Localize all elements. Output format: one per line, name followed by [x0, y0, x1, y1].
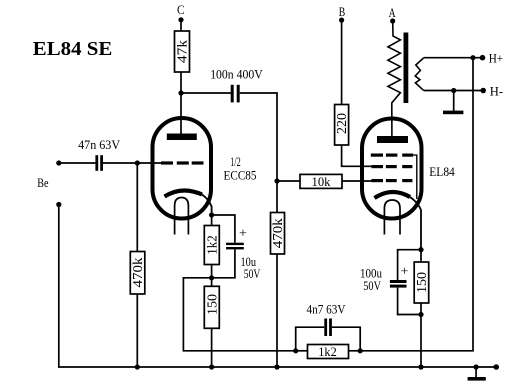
svg-text:47n 63V: 47n 63V	[78, 137, 121, 152]
capacitor C 100u 50V polarized	[360, 265, 409, 293]
wire B to R 220	[341, 20, 343, 104]
wire 100n to corner down to node	[240, 93, 277, 212]
svg-text:B: B	[339, 5, 346, 19]
wire 220 to EL84 grid g2	[342, 145, 372, 166]
svg-text:4n7 63V: 4n7 63V	[307, 302, 347, 317]
wire input ground down and ground rail	[59, 205, 496, 368]
resistor 10k	[300, 174, 342, 189]
grid g3 dashes EL84	[371, 155, 417, 199]
wire junction to 150	[420, 250, 422, 315]
wire 10u bottom to junction	[212, 249, 235, 277]
svg-text:150: 150	[204, 294, 219, 315]
node 100u/150 top junction	[418, 247, 423, 252]
svg-text:1k2: 1k2	[204, 235, 219, 255]
terminal rail end	[493, 364, 499, 370]
svg-text:150: 150	[414, 272, 429, 293]
wire feedback from junction down-left	[183, 278, 295, 351]
wire junction to R 10k	[277, 180, 300, 182]
grid dashes ECC85	[161, 161, 204, 164]
capacitor C 4n7	[324, 319, 332, 337]
svg-text:H-: H-	[490, 84, 503, 99]
node C	[177, 3, 185, 22]
wire 47k to anode junction	[180, 72, 182, 93]
node bottom network right	[358, 348, 363, 353]
node rail dot EL84 cathode	[418, 364, 423, 369]
wire secondary bottom to H-	[424, 90, 484, 92]
wire cathode junction to 1k2	[211, 215, 213, 226]
wire secondary top to H+	[424, 57, 483, 59]
wire cathode junction to C 10u	[212, 215, 235, 243]
node Be input signal	[56, 160, 61, 165]
svg-text:10k: 10k	[312, 174, 331, 189]
wire C to R 47k	[180, 20, 182, 31]
node 1k2/150 junction	[209, 265, 214, 287]
svg-text:C: C	[177, 3, 185, 17]
svg-text:100n 400V: 100n 400V	[210, 66, 263, 81]
node rail dot 150	[209, 364, 214, 369]
heater ECC85	[175, 198, 189, 235]
heater EL84	[384, 200, 400, 235]
svg-text:Be: Be	[37, 175, 48, 190]
terminal H-	[480, 84, 503, 99]
wire top junction to 100u	[398, 250, 421, 280]
label Be	[37, 175, 48, 190]
tube U1 envelope 1/2 ECC85	[153, 118, 212, 219]
transformer core	[404, 33, 409, 104]
wire grid junction to R 470k left	[136, 163, 138, 252]
node junction 10k/470k	[274, 178, 279, 183]
wire 10k to EL84 grid g1	[342, 180, 372, 182]
svg-text:50V: 50V	[244, 266, 261, 281]
resistor 47k	[175, 31, 190, 72]
terminal H+	[480, 50, 503, 65]
anode bar EL84	[377, 136, 408, 143]
label 1/2 ECC85	[224, 154, 257, 182]
tube U2 envelope EL84	[362, 119, 422, 219]
svg-text:220: 220	[334, 113, 349, 134]
resistor 470k middle	[270, 213, 285, 255]
wire 470k left to rail	[136, 294, 138, 367]
wire 470k middle to rail	[276, 254, 278, 367]
node grid junction	[135, 160, 140, 165]
svg-text:EL84: EL84	[429, 164, 455, 179]
label 4n7 63V	[307, 302, 347, 317]
capacitor C 100n 400V	[210, 66, 263, 102]
wire input to C 47n	[59, 162, 96, 164]
capacitor C 47n 63V	[78, 137, 121, 171]
svg-text:EL84 SE: EL84 SE	[33, 38, 113, 60]
svg-text:H+: H+	[489, 50, 503, 65]
node rail dot 470k middle	[274, 364, 279, 369]
anode bar ECC85	[167, 93, 197, 140]
ground main	[468, 367, 486, 381]
cathode EL84	[375, 192, 422, 250]
node 100u/150 bottom junction	[418, 312, 423, 317]
capacitor C 10u 50V polarized	[226, 226, 261, 281]
cathode ECC85	[165, 190, 212, 215]
title EL84 SE	[33, 38, 113, 60]
wire 4n7 right stub	[332, 327, 360, 351]
resistor 220	[334, 105, 349, 146]
svg-text:47k: 47k	[175, 40, 190, 63]
ground secondary	[443, 91, 463, 115]
wire 100u bottom to bottom junction	[398, 288, 421, 315]
wire 4n7 left stub	[296, 327, 325, 351]
node rail dot ground	[474, 364, 479, 369]
svg-text:+: +	[401, 265, 409, 280]
svg-text:470k: 470k	[130, 257, 145, 287]
node B	[339, 5, 346, 23]
resistor 1k2 cathode	[204, 226, 219, 265]
node rail dot 470k left	[135, 364, 140, 369]
node Be input ground	[56, 202, 61, 207]
svg-text:1k2: 1k2	[318, 344, 337, 359]
wire 47n to grid junction and into tube	[103, 162, 161, 164]
svg-text:470k: 470k	[270, 218, 285, 248]
svg-text:ECC85: ECC85	[224, 167, 257, 182]
wire junction to C 100n	[181, 92, 231, 94]
node A	[389, 6, 396, 24]
resistor 150 cathode	[204, 286, 219, 328]
wire feedback H+ down to bottom network	[360, 58, 473, 351]
node bottom network left	[293, 348, 298, 353]
svg-text:A: A	[389, 6, 396, 20]
svg-text:+: +	[239, 226, 247, 241]
resistor 150 EL84 cathode	[414, 262, 429, 303]
transformer secondary winding	[415, 58, 423, 90]
grid g1 dashes EL84	[371, 179, 412, 182]
resistor 1k2 feedback	[296, 344, 361, 359]
resistor 470k left	[130, 252, 145, 295]
svg-text:50V: 50V	[363, 278, 381, 293]
transformer primary winding	[388, 21, 401, 136]
wire 150 to rail	[211, 328, 213, 367]
label EL84	[429, 164, 455, 179]
node anode junction ECC85	[178, 90, 183, 95]
grid g2 dashes EL84	[371, 165, 412, 168]
node H+ junction	[470, 55, 475, 60]
node H- junction	[451, 88, 456, 93]
node cathode junction ECC85	[209, 212, 214, 217]
wire bottom junction to rail	[420, 315, 422, 368]
